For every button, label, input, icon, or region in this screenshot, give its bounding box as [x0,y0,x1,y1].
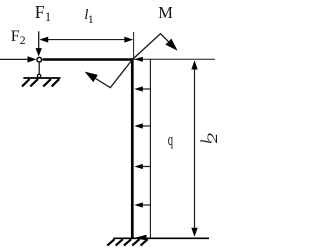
svg-text:2: 2 [20,33,26,47]
distributed load arrow q 5 [141,204,150,206]
svg-text:F: F [35,2,45,22]
distributed load arrow q 4 [141,166,150,168]
bottom support hatching [107,239,114,245]
svg-text:F: F [11,28,20,45]
force F2 arrow [0,58,29,60]
svg-text:1: 1 [88,12,94,26]
dimension l1 line [46,39,126,41]
pin joint circle [37,57,42,62]
distributed load arrow q 2 [141,88,150,90]
top extension line [134,58,215,60]
svg-text:1: 1 [45,10,51,24]
support link line [38,63,40,75]
column (vertical member) [131,58,134,238]
dimension l1 extension line at column [133,32,135,59]
beam (horizontal member) [43,58,134,61]
distributed load line [149,59,151,238]
svg-text:2: 2 [204,133,221,143]
distributed load arrow q top [134,57,143,62]
distributed load arrow q 3 [141,125,150,127]
label l2 (rotated 90 CCW) [199,133,221,144]
dimension l2 line [194,69,196,229]
force F1 arrow [38,31,40,49]
svg-text:q: q [168,132,173,150]
left support ground line [23,77,60,79]
distributed load arrow q bottom (half hidden by ground line) [133,235,147,240]
lower pin circle [37,74,40,77]
moment M arrow (clockwise double-bent arrow through corner) [96,34,169,88]
bottom ground line [113,237,209,239]
svg-text:M: M [158,3,173,22]
left support hatching [22,79,30,86]
